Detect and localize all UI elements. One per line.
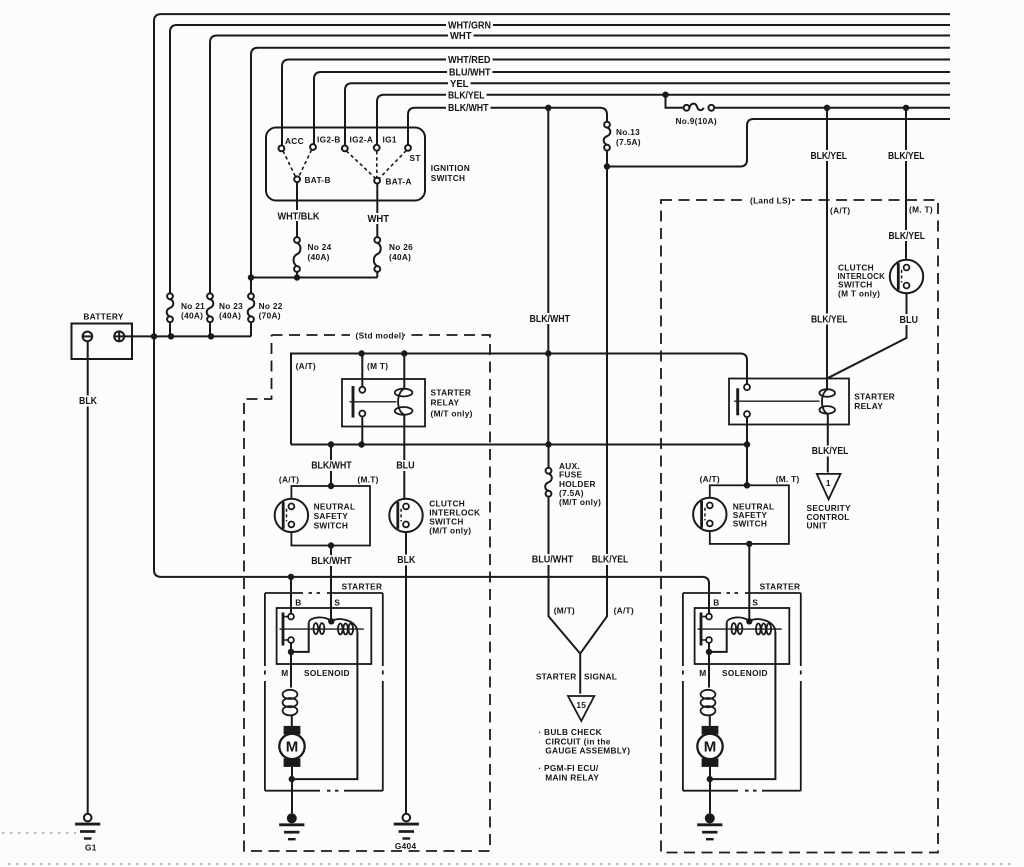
- svg-text:RELAY: RELAY: [854, 401, 883, 411]
- svg-text:STARTER: STARTER: [854, 391, 895, 401]
- svg-text:1: 1: [826, 478, 831, 488]
- svg-text:SIGNAL: SIGNAL: [584, 671, 617, 681]
- svg-text:WHT: WHT: [368, 214, 390, 225]
- svg-text:(A/T): (A/T): [614, 605, 634, 615]
- svg-text:BLK/WHT: BLK/WHT: [311, 556, 352, 567]
- svg-text:(40A): (40A): [181, 311, 203, 321]
- svg-text:YEL: YEL: [450, 79, 469, 90]
- svg-text:(M T): (M T): [367, 361, 388, 371]
- svg-text:SWITCH: SWITCH: [733, 519, 768, 529]
- svg-text:No 21: No 21: [181, 301, 205, 311]
- svg-text:M: M: [286, 738, 299, 755]
- svg-text:B: B: [295, 598, 301, 608]
- svg-text:ACC: ACC: [285, 136, 304, 146]
- svg-text:BLU: BLU: [396, 461, 415, 472]
- svg-text:No 23: No 23: [219, 301, 243, 311]
- svg-text:(M. T): (M. T): [909, 205, 933, 215]
- svg-text:MAIN RELAY: MAIN RELAY: [545, 772, 599, 782]
- svg-text:BLK/YEL: BLK/YEL: [889, 231, 926, 242]
- svg-text:WHT/RED: WHT/RED: [448, 55, 491, 66]
- svg-text:RELAY: RELAY: [431, 398, 460, 408]
- svg-text:SAFETY: SAFETY: [314, 511, 349, 521]
- svg-text:(A/T): (A/T): [830, 206, 850, 216]
- svg-text:BLU/WHT: BLU/WHT: [449, 68, 491, 79]
- svg-text:(70A): (70A): [259, 311, 281, 321]
- svg-text:G1: G1: [85, 843, 97, 853]
- svg-text:No 26: No 26: [389, 242, 413, 252]
- svg-text:G404: G404: [395, 841, 417, 851]
- svg-text:SWITCH: SWITCH: [314, 521, 349, 531]
- svg-text:BLU/WHT: BLU/WHT: [532, 555, 574, 566]
- svg-text:BLK/YEL: BLK/YEL: [811, 314, 848, 325]
- svg-text:(40A): (40A): [219, 311, 241, 321]
- svg-text:SOLENOID: SOLENOID: [304, 668, 350, 678]
- svg-text:BLK: BLK: [79, 396, 97, 407]
- svg-text:WHT/BLK: WHT/BLK: [278, 212, 320, 223]
- svg-text:No.13: No.13: [616, 127, 640, 137]
- svg-text:S: S: [334, 598, 340, 608]
- svg-text:M: M: [281, 668, 288, 678]
- svg-text:BLK/WHT: BLK/WHT: [530, 314, 571, 325]
- svg-text:(A/T): (A/T): [296, 361, 316, 371]
- svg-text:(40A): (40A): [389, 252, 411, 262]
- svg-text:GAUGE ASSEMBLY): GAUGE ASSEMBLY): [545, 746, 630, 756]
- svg-text:IG2-B: IG2-B: [317, 135, 341, 145]
- svg-text:BAT-B: BAT-B: [305, 175, 331, 185]
- svg-text:(M. T): (M. T): [776, 474, 800, 484]
- svg-text:BLK/YEL: BLK/YEL: [592, 555, 629, 566]
- svg-text:BLK/YEL: BLK/YEL: [888, 151, 925, 162]
- svg-text:IG1: IG1: [383, 135, 397, 145]
- svg-text:(40A): (40A): [308, 252, 330, 262]
- svg-text:SWITCH: SWITCH: [431, 173, 466, 183]
- svg-text:(M.T): (M.T): [357, 475, 378, 485]
- svg-text:(M/T only): (M/T only): [431, 409, 473, 419]
- svg-text:NEUTRAL: NEUTRAL: [314, 502, 356, 512]
- svg-text:STARTER: STARTER: [431, 388, 472, 398]
- svg-text:(A/T): (A/T): [279, 475, 299, 485]
- svg-text:BATTERY: BATTERY: [83, 312, 124, 322]
- svg-text:STARTER: STARTER: [342, 582, 383, 592]
- svg-text:No 22: No 22: [259, 301, 283, 311]
- svg-text:BLK/WHT: BLK/WHT: [311, 461, 352, 472]
- svg-text:BLK/WHT: BLK/WHT: [448, 103, 489, 114]
- svg-text:(Land LS): (Land LS): [750, 196, 791, 206]
- svg-text:(7.5A): (7.5A): [616, 137, 641, 147]
- svg-text:UNIT: UNIT: [807, 521, 828, 531]
- svg-text:STARTER: STARTER: [536, 671, 577, 681]
- svg-text:FUSE: FUSE: [559, 470, 582, 480]
- svg-text:IGNITION: IGNITION: [431, 163, 470, 173]
- svg-text:BLK/YEL: BLK/YEL: [448, 90, 485, 101]
- svg-text:BLK/YEL: BLK/YEL: [812, 446, 849, 457]
- svg-text:BLU: BLU: [900, 315, 919, 326]
- svg-text:IG2-A: IG2-A: [350, 135, 374, 145]
- svg-text:BAT-A: BAT-A: [386, 177, 412, 187]
- svg-text:(M T only): (M T only): [838, 289, 880, 299]
- svg-text:No.9(10A): No.9(10A): [676, 116, 717, 126]
- svg-text:(M/T only): (M/T only): [559, 497, 601, 507]
- svg-text:(M/T only): (M/T only): [429, 526, 471, 536]
- svg-text:No 24: No 24: [308, 242, 332, 252]
- svg-text:WHT/GRN: WHT/GRN: [448, 21, 491, 32]
- svg-text:· PGM-FI ECU/: · PGM-FI ECU/: [538, 763, 599, 773]
- svg-text:15: 15: [576, 700, 586, 710]
- svg-text:BLK: BLK: [397, 555, 415, 566]
- svg-text:(M/T): (M/T): [554, 605, 575, 615]
- svg-text:ST: ST: [410, 153, 421, 163]
- svg-text:· BULB CHECK: · BULB CHECK: [538, 727, 602, 737]
- svg-text:BLK/YEL: BLK/YEL: [811, 151, 848, 162]
- svg-text:WHT: WHT: [450, 31, 472, 42]
- svg-text:(Std model): (Std model): [356, 331, 405, 341]
- svg-text:(A/T): (A/T): [700, 474, 720, 484]
